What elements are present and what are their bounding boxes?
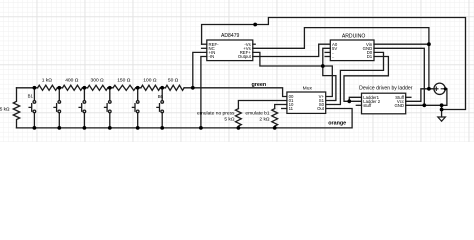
pin Stuff stub device right [406, 96, 411, 98]
wire pin 01 to emulate-no-press resistor [238, 101, 287, 109]
svg-text:Output: Output [238, 54, 252, 59]
svg-text:Out: Out [317, 106, 325, 111]
junction ladder top cell 5 [136, 86, 140, 90]
switch B6 [157, 88, 164, 128]
resistor R4 150 Ohm [113, 85, 136, 90]
junction ground line to top-rail loop [440, 108, 444, 112]
multiplexer U3 Mux box [287, 92, 326, 113]
svg-text:5 kΩ: 5 kΩ [0, 107, 10, 112]
svg-text:-IN: -IN [209, 54, 215, 59]
resistor R8 emulate no press 5 kOhm [236, 109, 242, 128]
junction ladder top cell 2 [57, 86, 61, 90]
resistor R1 1 kOhm [38, 85, 58, 90]
pin stub arduino left pin 4 [325, 56, 330, 58]
amplifier U1 AD8479 box [207, 40, 253, 61]
svg-text:orange: orange [328, 120, 346, 126]
resistor R5 100 Ohm [141, 85, 160, 90]
svg-text:11: 11 [289, 106, 294, 111]
wire green net from ladder to Mux pin 00 [184, 88, 287, 97]
svg-text:400 Ω: 400 Ω [65, 77, 79, 83]
svg-text:..: .. [332, 54, 334, 59]
wire pin Vin to supply net [374, 43, 429, 45]
switch B5 [132, 88, 139, 128]
wire [136, 87, 141, 89]
switch B4 [105, 88, 112, 128]
pin stuff stub device left [356, 104, 361, 106]
svg-text:ARDUINO: ARDUINO [342, 33, 366, 39]
wire pin Vcc to source + terminal [406, 89, 434, 102]
wire pin Output to Arduino A0 [253, 44, 330, 56]
ground [438, 117, 446, 121]
wire branch to Device Ladder1 [349, 97, 361, 101]
svg-text:green: green [252, 82, 267, 88]
junction top rail / -Vs [253, 23, 257, 27]
svg-text:1 kΩ: 1 kΩ [42, 77, 53, 83]
svg-text:50 Ω: 50 Ω [168, 77, 179, 83]
junction bottom rail cell 5 [136, 126, 140, 130]
wire pin GND ground line to source - terminal [406, 89, 447, 106]
wire top rail: REF- / -Vs / V- supply net [202, 18, 466, 110]
junction bottom rail cell 2 [57, 126, 61, 130]
plus sign of V1 [435, 87, 438, 90]
wire pin REF+ to Mux V+ [253, 52, 332, 96]
junction REF+ / 5V / V+ / S1 [321, 64, 325, 68]
junction R8 at bottom rail [237, 126, 241, 130]
wire pin D1 to Device Ladder 2 [344, 57, 388, 102]
svg-text:100 Ω: 100 Ω [143, 77, 157, 83]
svg-text:5 kΩ: 5 kΩ [224, 117, 235, 123]
svg-text:emulate b1: emulate b1 [245, 111, 269, 117]
voltage source V1 circle [434, 83, 445, 94]
svg-text:B6: B6 [158, 94, 164, 99]
svg-text:stuff: stuff [363, 103, 372, 108]
junction Vin / supply [427, 42, 431, 46]
minus sign of V1 [441, 88, 444, 90]
svg-text:Device driven by ladder: Device driven by ladder [359, 85, 413, 91]
wire pin -Vs stub to top rail [253, 43, 255, 45]
resistor R2 400 Ohm [63, 85, 83, 90]
svg-text:150 Ω: 150 Ω [117, 77, 131, 83]
junction bottom rail cell 6 [160, 126, 164, 130]
svg-text:D1: D1 [367, 54, 373, 59]
junction ladder top cell 3 [83, 86, 87, 90]
wire [82, 87, 87, 89]
junction Ladder1 / Ladder 2 [347, 99, 351, 103]
junction ground line at ground symbol [440, 103, 444, 107]
wire pin D0 to Mux S0 [326, 52, 384, 104]
microcontroller U2 ARDUINO box [330, 40, 374, 61]
pin 11 stub [282, 108, 287, 110]
wire pin -IN to bottom rail [201, 57, 207, 128]
wire pin 5V to REF+ net junction [323, 48, 331, 66]
junction Arduino GND at ground line [422, 103, 426, 107]
wire ladder top rail left segment [17, 87, 38, 89]
pin NC stub [202, 47, 207, 49]
svg-text:B1: B1 [28, 93, 34, 98]
wire [108, 87, 113, 89]
junction bottom rail cell 3 [83, 126, 87, 130]
switch B3 [79, 88, 86, 128]
wire pin REF- to top rail [202, 43, 207, 45]
switch B1 [29, 88, 36, 128]
pin stub arduino left pin 3 [325, 51, 330, 53]
wire pin 10 to emulate-b1 resistor [275, 105, 287, 109]
junction supply at source + [427, 87, 431, 91]
wire pin +Vs supply net to Vin and source + [253, 28, 429, 89]
switch B2 [54, 88, 61, 128]
svg-text:GND: GND [394, 103, 404, 108]
svg-text:AD8479: AD8479 [221, 33, 240, 39]
junction bottom rail cell 4 [108, 126, 112, 130]
junction R9 at bottom rail [273, 126, 277, 130]
resistor R6 50 Ohm [165, 85, 184, 90]
wire ground stub [441, 105, 443, 117]
resistor R7 5 kOhm (left vertical) [13, 88, 19, 128]
junction ladder top cell 6 [160, 86, 164, 90]
junction bottom rail cell 1 [33, 126, 37, 130]
wire pin +IN to ladder top (node green tap) [193, 52, 207, 87]
svg-text:Mux: Mux [303, 86, 313, 92]
wire [57, 87, 62, 89]
terminal post source - [444, 87, 447, 90]
junction ladder top cell 4 [108, 86, 112, 90]
wire [160, 87, 165, 89]
wire pin GND to ground line [374, 48, 424, 105]
wire bottom rail (orange net) to Mux pin Out [17, 109, 353, 128]
svg-text:2 kΩ: 2 kΩ [259, 117, 270, 123]
svg-text:300 Ω: 300 Ω [91, 77, 105, 83]
chip U4 Device driven by ladder box [362, 93, 406, 114]
wire branch to Mux S1 [323, 66, 336, 101]
junction ladder top cell 1 [33, 86, 37, 90]
node green tap (+IN to ladder) [191, 86, 195, 90]
resistor R3 300 Ohm [88, 85, 108, 90]
junction -IN at bottom rail [199, 126, 203, 130]
resistor R9 emulate b1 2 kOhm [272, 109, 278, 128]
svg-text:emulate no press: emulate no press [197, 111, 235, 117]
